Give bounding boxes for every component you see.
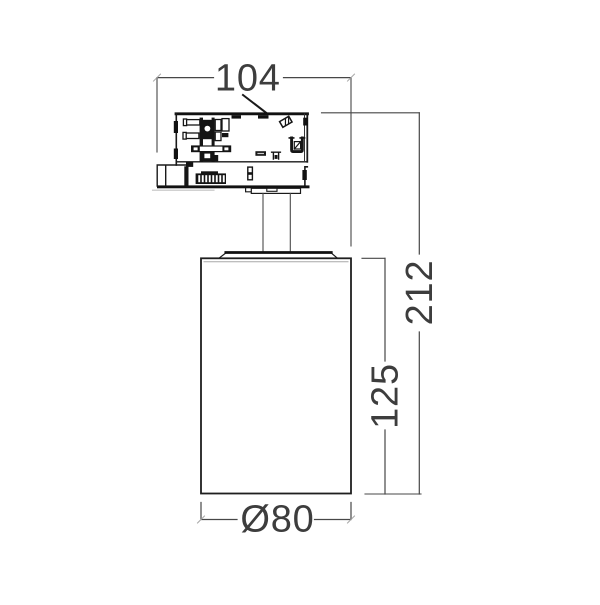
ladder rect 1 <box>215 120 221 131</box>
small dark rect slit <box>257 153 264 154</box>
lower bit right <box>214 155 218 161</box>
lower block <box>201 152 213 162</box>
contact rail A <box>200 118 203 162</box>
pin 1 <box>183 119 199 126</box>
svg-text:125: 125 <box>365 363 407 429</box>
cross cap right window <box>224 147 228 150</box>
stem plate inner rect <box>267 188 277 191</box>
ladder dark bit <box>222 133 228 137</box>
gear hump <box>201 171 218 173</box>
adapter mid divider <box>176 161 307 163</box>
dim 104 line <box>157 77 351 79</box>
cross cap left <box>192 146 200 152</box>
flange dark bar <box>184 166 188 186</box>
tilted tag <box>280 116 292 127</box>
adapter top tab 2 <box>258 115 269 118</box>
adapter left tab 2 <box>174 149 178 160</box>
dim 104 ext left <box>156 78 158 152</box>
gear block <box>196 173 226 184</box>
cylinder inner rim line <box>204 261 348 263</box>
flange collar <box>186 162 193 167</box>
ladder rect 2 <box>215 132 221 141</box>
dim 125 ext top <box>362 257 385 259</box>
cross cap right <box>222 146 230 152</box>
U bracket <box>289 138 304 152</box>
adapter right edge lower <box>305 167 307 187</box>
pin 2 <box>183 132 199 139</box>
adapter bottom edge <box>157 185 310 188</box>
cap trapezoid <box>219 253 337 259</box>
dim 212 line <box>418 113 420 494</box>
ladder col right <box>222 119 229 131</box>
cap top thick edge <box>226 251 331 254</box>
dia80 tick right <box>348 516 355 523</box>
adapter right inner line <box>304 114 306 161</box>
adapter top edge <box>176 112 308 115</box>
adapter left tab 1 <box>174 121 178 133</box>
stem left line <box>262 193 264 252</box>
contact block with hole <box>203 120 212 139</box>
cylinder body <box>201 258 351 493</box>
svg-text:212: 212 <box>399 260 441 326</box>
flange box <box>157 165 190 186</box>
stem plate notch <box>246 188 252 192</box>
switch band <box>248 172 253 175</box>
dim 104 tick left <box>154 74 161 81</box>
stem right line <box>289 193 291 252</box>
dim dia80 bracket <box>201 503 351 520</box>
dim 104 tick right <box>348 74 355 81</box>
leader diagonal to adapter top <box>243 95 268 114</box>
adapter left edge <box>175 114 177 165</box>
flange foot shadow line <box>153 189 215 191</box>
adapter right edge upper <box>306 114 308 162</box>
dia80 tick left <box>198 516 205 523</box>
cross bar <box>192 146 231 152</box>
contact hole <box>205 126 211 132</box>
adapter right tab 2 <box>302 170 306 180</box>
svg-text:Ø80: Ø80 <box>240 499 314 541</box>
svg-text:104: 104 <box>215 58 281 100</box>
dim 125 line <box>384 258 386 494</box>
lower block window <box>204 154 210 159</box>
adapter top tab 1 <box>232 115 242 118</box>
ext bottom shared 125/212 <box>365 493 421 495</box>
ext line top to 212 <box>322 112 420 114</box>
contact rail B <box>212 118 215 162</box>
cross cap left window <box>194 147 198 150</box>
gear slots <box>198 175 224 182</box>
adapter right tab 1 <box>303 118 308 126</box>
small dark rect <box>255 151 266 156</box>
stem plate <box>251 188 300 193</box>
dim 104 ext right <box>350 78 352 246</box>
table symbol <box>272 152 281 159</box>
switch <box>248 167 253 180</box>
